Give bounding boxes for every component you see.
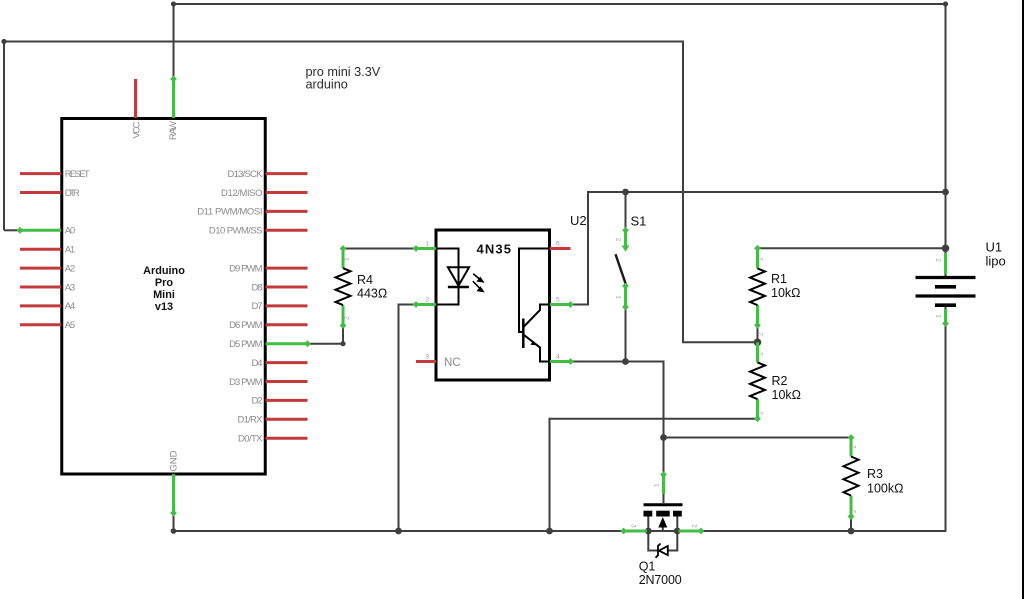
svg-text:6: 6: [556, 241, 560, 248]
svg-text:1: 1: [654, 483, 661, 487]
svg-text:2: 2: [936, 258, 943, 262]
svg-text:D1/RX: D1/RX: [238, 415, 264, 426]
svg-text:2N7000: 2N7000: [639, 573, 682, 587]
svg-text:RAW: RAW: [168, 121, 179, 140]
svg-text:2: 2: [851, 509, 858, 513]
svg-text:100kΩ: 100kΩ: [867, 482, 903, 496]
svg-text:lipo: lipo: [986, 254, 1006, 269]
svg-text:4N35: 4N35: [477, 242, 512, 257]
svg-text:1: 1: [758, 257, 765, 261]
svg-text:4: 4: [556, 354, 560, 361]
svg-text:U2: U2: [570, 213, 587, 228]
svg-text:R3: R3: [867, 467, 883, 481]
svg-text:R2: R2: [772, 374, 788, 388]
svg-text:D5 PWM: D5 PWM: [229, 339, 262, 350]
svg-text:3: 3: [425, 354, 429, 361]
svg-text:D12/MISO: D12/MISO: [221, 188, 263, 199]
svg-text:A5: A5: [65, 320, 76, 331]
svg-text:Pro: Pro: [155, 277, 174, 289]
svg-text:443Ω: 443Ω: [357, 287, 387, 301]
svg-text:1: 1: [758, 352, 765, 356]
svg-text:1: 1: [344, 257, 351, 261]
svg-text:2: 2: [344, 316, 351, 320]
svg-text:R1: R1: [771, 272, 787, 286]
svg-text:D6 PWM: D6 PWM: [229, 320, 262, 331]
svg-text:10kΩ: 10kΩ: [771, 286, 801, 300]
svg-text:2: 2: [758, 332, 765, 336]
svg-text:2: 2: [616, 238, 623, 242]
svg-text:Q1: Q1: [639, 560, 656, 574]
svg-text:D8: D8: [252, 282, 263, 293]
svg-text:D2: D2: [252, 396, 263, 407]
svg-text:D9 PWM: D9 PWM: [229, 263, 262, 274]
svg-text:5: 5: [556, 297, 560, 304]
svg-text:v13: v13: [155, 301, 173, 313]
svg-text:U1: U1: [986, 240, 1003, 255]
svg-text:10kΩ: 10kΩ: [772, 388, 802, 402]
svg-text:A2: A2: [65, 263, 76, 274]
svg-text:VCC: VCC: [132, 121, 143, 138]
svg-text:GND: GND: [169, 450, 180, 471]
svg-text:D4: D4: [252, 358, 263, 369]
svg-text:1: 1: [851, 445, 858, 449]
svg-text:D7: D7: [252, 301, 263, 312]
svg-text:D11 PWM/MOSI: D11 PWM/MOSI: [197, 207, 262, 218]
svg-text:Mini: Mini: [153, 289, 175, 301]
svg-text:D0/TX: D0/TX: [238, 434, 263, 445]
svg-text:RESET: RESET: [65, 169, 90, 180]
svg-text:1: 1: [425, 241, 429, 248]
svg-text:3: 3: [630, 524, 637, 528]
svg-text:Arduino: Arduino: [143, 265, 185, 277]
svg-text:NC: NC: [444, 357, 461, 369]
svg-text:R4: R4: [357, 273, 373, 287]
svg-text:1: 1: [936, 314, 943, 318]
svg-text:S1: S1: [631, 214, 647, 229]
svg-text:D10 PWM/SS: D10 PWM/SS: [209, 226, 263, 237]
svg-text:2: 2: [425, 297, 429, 304]
svg-text:A1: A1: [65, 245, 76, 256]
svg-text:D3 PWM: D3 PWM: [229, 377, 262, 388]
svg-text:D13/SCK: D13/SCK: [228, 169, 264, 180]
svg-text:A0: A0: [65, 226, 76, 237]
svg-text:1: 1: [616, 295, 623, 299]
svg-text:DTR: DTR: [65, 188, 80, 199]
svg-text:2: 2: [758, 411, 765, 415]
svg-text:A4: A4: [65, 301, 76, 312]
svg-text:A3: A3: [65, 282, 76, 293]
svg-text:arduino: arduino: [306, 78, 348, 92]
svg-text:2: 2: [691, 524, 698, 528]
